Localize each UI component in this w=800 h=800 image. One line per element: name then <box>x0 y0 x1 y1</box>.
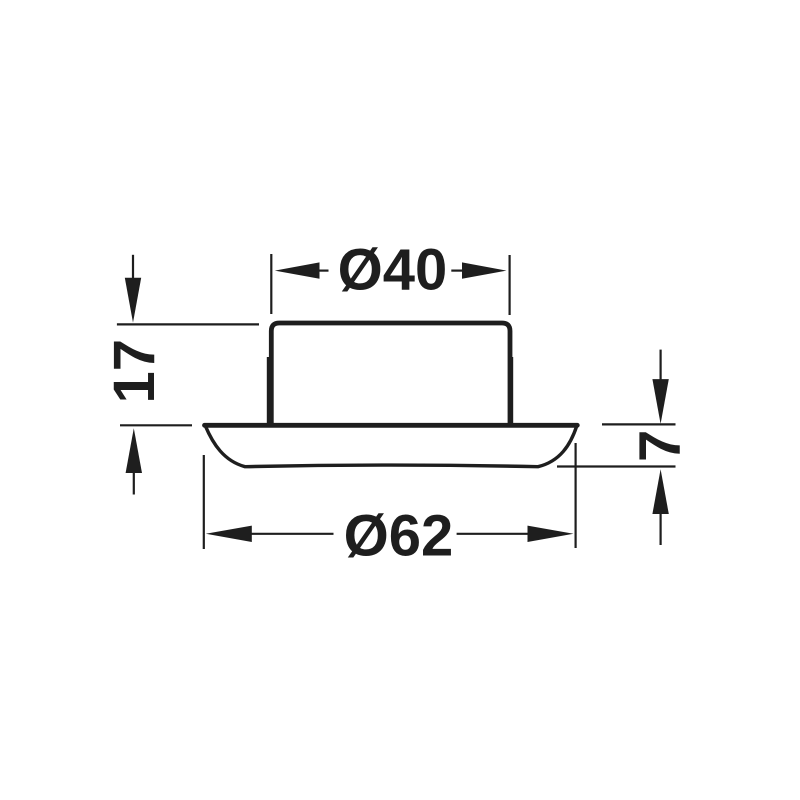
dim O40 left arrow <box>275 262 320 278</box>
dim 17 bottom arrow <box>126 428 142 473</box>
dim O40 right arrow tail <box>451 270 463 272</box>
dim 7 top arrow <box>652 379 668 424</box>
dim 17 top arrow <box>125 278 141 323</box>
svg-text:Ø40: Ø40 <box>338 238 448 303</box>
fixture body (lamp housing outline) <box>271 323 510 426</box>
dim O62 left arrow <box>206 526 252 542</box>
dim 7 bottom arrow tail <box>659 513 661 545</box>
dim 7 top arrow tail <box>659 350 661 380</box>
trim flange dish outline <box>205 426 577 467</box>
dim 17 top arrow tail <box>132 255 134 279</box>
extension line lower of dim 17 <box>120 424 192 426</box>
dim O62 left arrow tail <box>251 533 334 535</box>
fixture body right edge step <box>511 357 513 424</box>
dim O40 left arrow tail <box>319 270 329 272</box>
dim 7 bottom arrow <box>652 469 668 514</box>
fixture body left edge step <box>267 357 269 424</box>
dim O40 right arrow <box>462 262 507 278</box>
extension line left of dim O40 <box>270 254 272 314</box>
extension line right of dim O40 <box>509 255 511 315</box>
extension line upper of dim 7 <box>602 423 676 425</box>
svg-text:7: 7 <box>628 430 693 462</box>
trim flange top line <box>205 423 578 428</box>
extension line left of dim O62 <box>203 455 205 549</box>
dim O62 right arrow <box>528 526 574 542</box>
dim 17 bottom arrow tail <box>133 472 135 495</box>
svg-text:Ø62: Ø62 <box>344 503 454 568</box>
extension line right of dim O62 <box>574 443 576 548</box>
svg-text:17: 17 <box>102 339 167 404</box>
extension line upper of dim 17 <box>117 323 259 325</box>
extension line lower of dim 7 <box>557 465 676 467</box>
dim O62 right arrow tail <box>457 533 529 535</box>
